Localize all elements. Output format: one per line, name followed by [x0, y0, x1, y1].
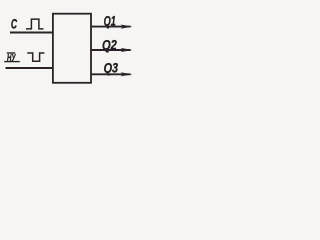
wire Q2 output	[91, 49, 131, 51]
counter block U1	[53, 14, 91, 83]
arrow Q3	[121, 72, 133, 76]
svg-text:C: C	[11, 15, 18, 31]
pulse symbol (positive) on C input	[26, 19, 44, 29]
arrow Q1	[121, 25, 133, 29]
svg-text:НУ: НУ	[7, 53, 16, 64]
underline of НУ	[4, 61, 20, 63]
wire Q1 output	[91, 26, 131, 28]
wire Q3 output	[91, 73, 131, 75]
wire НУ input	[6, 67, 54, 69]
overline of НУ	[7, 52, 15, 54]
wire C input	[10, 32, 53, 34]
arrow Q2	[121, 48, 133, 52]
pulse symbol (negative) on НУ input	[27, 53, 44, 61]
